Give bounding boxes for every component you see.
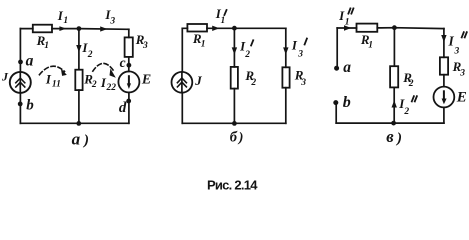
- svg-text:J: J: [194, 73, 202, 88]
- resistor R1 (circuit v): [357, 24, 378, 32]
- node b (circuit a): [18, 102, 23, 107]
- wire: bottom side circuit v: [336, 122, 444, 124]
- EMF source E (circuit a): [118, 71, 139, 92]
- svg-text:1: 1: [221, 16, 226, 26]
- svg-text:I: I: [291, 38, 298, 53]
- svg-text:2: 2: [91, 80, 97, 90]
- junction dot bottom middle (circuit a): [76, 121, 81, 126]
- resistor R1 (circuit b): [187, 24, 207, 32]
- EMF source E (circuit v): [434, 87, 455, 108]
- resistor R1 (circuit a): [33, 25, 52, 33]
- mesh current I22 arc: [93, 63, 114, 71]
- wire: right side circuit a: [128, 29, 130, 123]
- junction dot bottom (circuit b): [232, 121, 237, 126]
- svg-text:б: б: [230, 130, 238, 146]
- svg-text:E: E: [456, 90, 467, 106]
- wire: top side circuit a: [20, 28, 128, 31]
- current arrow I1': [212, 26, 219, 31]
- svg-text:2: 2: [250, 78, 256, 88]
- svg-text:a: a: [26, 52, 34, 69]
- mesh current I11 arc: [39, 66, 64, 74]
- svg-text:Рис. 2.14: Рис. 2.14: [207, 178, 258, 193]
- wire: middle branch circuit a: [78, 29, 80, 124]
- svg-text:2: 2: [403, 107, 409, 117]
- node d (circuit a): [126, 99, 131, 104]
- current arrow I1'': [344, 25, 351, 30]
- svg-text:1: 1: [368, 41, 373, 51]
- double prime mark of I1'': [348, 8, 353, 13]
- double prime mark of I2'': [412, 96, 417, 101]
- svg-text:E: E: [141, 73, 151, 88]
- svg-text:3: 3: [297, 50, 303, 60]
- svg-text:11: 11: [52, 80, 61, 90]
- svg-text:2: 2: [87, 50, 93, 60]
- junction dot bottom (circuit v): [391, 121, 396, 126]
- svg-text:1: 1: [44, 41, 49, 51]
- current arrow I2': [232, 47, 237, 54]
- svg-text:d: d: [119, 100, 127, 116]
- resistor R2 (circuit v): [390, 66, 398, 87]
- wire: middle branch circuit b: [233, 28, 235, 123]
- wire: top side circuit v: [337, 27, 444, 30]
- junction dot top (circuit v): [392, 25, 397, 30]
- wire: left terminal a stub (circuit v): [336, 28, 338, 66]
- current source J (circuit a): [10, 72, 31, 93]
- svg-text:3: 3: [459, 69, 465, 79]
- prime mark of I3': [305, 39, 307, 45]
- svg-text:3: 3: [454, 46, 460, 56]
- svg-text:2: 2: [244, 50, 250, 60]
- current arrow I1: [59, 26, 66, 31]
- svg-text:J: J: [1, 69, 9, 83]
- resistor R3 (circuit a): [125, 37, 133, 57]
- svg-text:1: 1: [201, 39, 206, 49]
- prime mark of I2': [251, 40, 253, 45]
- wire: bottom side circuit b: [182, 122, 285, 124]
- junction dot top (circuit b): [232, 26, 237, 31]
- current arrow I3'': [441, 35, 446, 42]
- svg-text:3: 3: [109, 17, 115, 27]
- svg-text:a: a: [343, 59, 351, 76]
- current arrow I3': [283, 47, 288, 54]
- svg-text:): ): [82, 132, 89, 148]
- wire: left side circuit a: [19, 29, 21, 124]
- current source J (circuit b): [172, 72, 193, 93]
- node c (circuit a): [126, 63, 131, 68]
- svg-text:1: 1: [63, 16, 68, 26]
- double prime mark of I3'': [462, 32, 467, 37]
- wire: left side circuit b: [181, 28, 183, 123]
- wire: bottom side circuit a: [20, 122, 128, 124]
- resistor R2 (circuit b): [231, 67, 238, 89]
- current arrow I2: [76, 45, 81, 52]
- resistor R3 (circuit v): [440, 57, 448, 74]
- svg-text:22: 22: [106, 83, 117, 93]
- node a (circuit a): [18, 60, 23, 65]
- node b (circuit v): [333, 100, 338, 105]
- svg-text:в: в: [386, 127, 394, 146]
- current arrow I2'' (pointing up): [392, 100, 397, 107]
- svg-text:1: 1: [345, 18, 350, 28]
- svg-text:а: а: [72, 130, 81, 149]
- svg-text:3: 3: [300, 78, 306, 88]
- wire: middle branch circuit v: [393, 28, 395, 123]
- svg-text:b: b: [343, 94, 351, 111]
- svg-text:I: I: [448, 33, 455, 48]
- wire: from node b down to bottom (circuit v): [335, 105, 337, 123]
- svg-text:I: I: [45, 71, 52, 86]
- svg-text:2: 2: [408, 79, 414, 89]
- wire: right side circuit b: [285, 28, 287, 123]
- wire: right side circuit v: [443, 29, 445, 124]
- current arrow I3: [100, 26, 107, 31]
- junction dot top middle (circuit a): [77, 26, 82, 31]
- node a (circuit v): [334, 66, 339, 71]
- prime mark of I1': [224, 10, 226, 15]
- svg-text:c: c: [120, 55, 126, 70]
- svg-text:3: 3: [142, 41, 148, 51]
- svg-text:b: b: [26, 97, 34, 113]
- resistor R2 (circuit a): [75, 70, 82, 90]
- wire: top side circuit b: [182, 27, 285, 29]
- svg-text:): ): [395, 130, 402, 146]
- resistor R3 (circuit b): [282, 67, 289, 87]
